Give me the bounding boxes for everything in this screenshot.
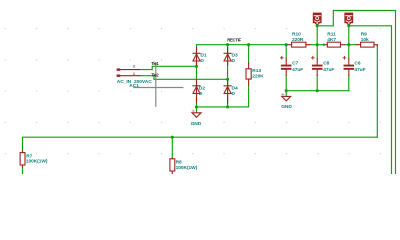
junction Tie2/bridge [226,78,229,81]
svg-text:D2: D2 [199,85,205,91]
gray origin cross vertical of connector [155,63,157,108]
svg-text:R10: R10 [292,32,301,38]
svg-text:4K7: 4K7 [327,37,336,43]
svg-text:47uF: 47uF [292,67,303,73]
gray origin cross horizontal of connector [133,87,183,89]
wire R10 right to C8 node [310,44,324,46]
resistor R9 body [357,42,378,47]
wire Tie1 from connector pin 2 to bridge [139,66,196,69]
svg-text:R13: R13 [252,68,261,74]
svg-text:GND: GND [191,121,202,127]
junction ground rail at C7 [285,89,288,92]
junction top rail at R13 [247,43,250,46]
svg-text:C7: C7 [292,60,298,66]
svg-text:10k: 10k [361,37,369,43]
junction cap ground rail at C8 [316,89,319,92]
wire C8 bottom [316,76,318,91]
diode D3 [224,48,231,66]
svg-text:2: 2 [133,65,135,69]
diode D4 [224,80,231,103]
junction bridge bottom left [195,105,198,108]
junction at C6/R11 [347,43,350,46]
wire capacitor ground rail [286,90,349,92]
gray origin scribble at GND1 [192,110,195,113]
diode D2 [193,80,200,103]
resistor R10 body [286,42,310,47]
svg-text:D1: D1 [200,52,206,58]
resistor R7 body [20,151,25,168]
connector AC1 pin 1 stub [119,75,139,77]
junction Tie1/bridge [195,65,198,68]
capacitor C7 plates [281,59,292,76]
resistor R13 body [246,63,251,86]
diode D1 [193,48,200,66]
ground symbol GND1 below bridge [192,113,201,118]
wire C6 bottom [348,76,350,91]
svg-text:47uF: 47uF [354,67,365,73]
svg-text:100K(1W): 100K(1W) [176,165,198,171]
wire C6 vertical top [348,26,350,59]
wire bottom of bridge to R13 bottom corner [197,85,249,107]
svg-text:D: D [200,58,204,64]
grid dots (decorative) [0,0,400,174]
svg-text:Tie1: Tie1 [151,61,159,66]
wire R11 right to C6 node and R9 left [344,44,356,46]
wire bridge right column vertical (D3/D4) [227,45,229,107]
svg-text:R11: R11 [327,32,336,38]
wire Tie2 from connector pin 1 to bridge [139,76,227,80]
wire R13 top from rail [248,45,250,63]
wire GND stub below bridge [196,107,198,113]
wire GND stub below cap rail [285,91,287,97]
wire C7 vertical from rail [285,45,287,59]
svg-text:47uF: 47uF [323,67,334,73]
svg-text:R9: R9 [361,32,367,38]
junction small at R11 left pin [323,44,325,46]
svg-text:D: D [232,58,236,64]
resistor R11 body [324,42,345,47]
junction tag1 node [316,24,319,27]
svg-text:GND: GND [281,104,292,110]
wire C7 bottom to ground rail [285,76,287,91]
wire net A: tag1 node to top right corner loop [317,11,395,175]
svg-text:D3: D3 [232,52,238,58]
svg-text:D: D [232,91,236,97]
svg-text:R8: R8 [176,159,182,165]
wire R8 drop from bottom rail [171,137,173,158]
junction at C8/R10 [316,43,319,46]
plus sign C6 [343,57,346,60]
svg-text:Tie2: Tie2 [151,72,159,77]
capacitor C6 plates [344,59,355,76]
wire bridge left column vertical (D1/D2) [196,45,198,107]
svg-text:D: D [199,91,203,97]
svg-text:RECTIF: RECTIF [227,38,241,43]
wire RECTIF top rail y=44.7 [197,44,287,46]
supply tag symbol above C6 node [345,13,353,25]
svg-text:1: 1 [133,72,135,76]
junction top rail at C7 [285,43,288,46]
svg-text:100K(1W): 100K(1W) [26,158,48,164]
svg-text:C8: C8 [323,60,329,66]
ground symbol GND2 below cap rail [282,96,291,101]
junction bridge bottom right [226,105,229,108]
wire R7 bottom lead to edge [22,167,24,174]
wire R9 right down to bottom rail [376,45,378,137]
svg-text:220R: 220R [292,37,304,43]
wire net B: tag2 node to right edge [349,26,392,174]
plus sign C8 [312,57,315,60]
connector AC1 pin 2 stub [119,69,139,71]
junction top rail at D3 [226,43,229,46]
junction tag2 node [347,24,350,27]
svg-text:C6: C6 [354,60,360,66]
wire bottom long rail to R7 [23,137,378,150]
junction bottom rail at R8 [171,136,174,139]
capacitor C8 plates [312,59,323,76]
svg-text:AC1: AC1 [129,83,139,89]
plus sign C7 [281,57,284,60]
svg-text:D4: D4 [232,85,238,91]
gray origin scribble at GND2 [281,93,284,96]
resistor R8 body [170,158,175,174]
supply tag symbol above C8 node [313,13,321,25]
wire C8 vertical top [316,26,318,59]
svg-text:220K: 220K [252,74,264,80]
